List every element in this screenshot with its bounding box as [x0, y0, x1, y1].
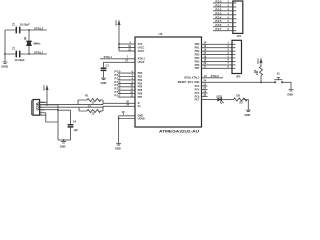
connector JP2	[232, 40, 242, 78]
wire switch to gnd	[283, 82, 291, 89]
wire usb vbus	[40, 101, 47, 103]
svg-text:GND: GND	[101, 81, 107, 85]
svg-text:1: 1	[127, 56, 129, 59]
wire PB7	[202, 66, 233, 69]
node XTAL2 stub at IC	[202, 74, 224, 78]
svg-text:C1: C1	[106, 64, 110, 68]
node PD4 label	[115, 84, 136, 87]
capacitor C1	[101, 64, 110, 78]
node PD0 jp wire	[213, 0, 233, 3]
wire PB3	[202, 52, 233, 55]
ground GND led	[245, 110, 251, 117]
svg-text:PB7: PB7	[195, 67, 200, 70]
node PD4 jp wire	[213, 16, 233, 19]
svg-text:UGND: UGND	[138, 117, 145, 120]
svg-text:PC7: PC7	[195, 98, 200, 101]
supply VCC reset	[256, 58, 263, 67]
capacitor C4	[68, 120, 79, 140]
wire UVCC pin	[119, 45, 135, 48]
svg-text:U1: U1	[159, 32, 163, 36]
wire PB0	[202, 42, 233, 45]
wire left vertical crystal bus	[4, 30, 6, 62]
node XTAL1 label	[34, 50, 44, 54]
wire usb gnd drop	[57, 105, 59, 140]
wire PC5 stub	[202, 90, 208, 93]
wire usb gnd row	[40, 109, 58, 111]
svg-text:PD5: PD5	[216, 20, 222, 23]
svg-text:C3: C3	[12, 22, 16, 26]
wire PC2 stub	[202, 83, 208, 86]
ground GND ucap	[101, 78, 107, 85]
supply VCC at IC	[114, 20, 120, 52]
wire r3 to gnd	[244, 100, 249, 111]
node PD3 jp wire	[213, 12, 233, 15]
svg-text:LED1: LED1	[216, 95, 223, 98]
svg-text:PD4: PD4	[216, 16, 222, 19]
node PD6 label	[115, 91, 136, 94]
node PD5 jp wire	[213, 20, 233, 23]
node PD5 label	[115, 88, 136, 91]
wire PB4	[202, 55, 233, 58]
svg-text:GND: GND	[115, 146, 121, 150]
resistor R3 220	[234, 95, 248, 105]
junction vcc pins	[118, 43, 120, 48]
junction crystal top	[28, 29, 30, 31]
usb connector X1	[31, 100, 39, 116]
wire D+	[40, 106, 135, 111]
svg-text:VCC: VCC	[114, 20, 118, 26]
svg-text:PD7: PD7	[138, 96, 143, 99]
svg-text:R1: R1	[85, 95, 89, 98]
svg-text:GND: GND	[287, 92, 293, 96]
wire VCC pin	[119, 41, 135, 44]
node PD7 jp wire	[213, 28, 233, 31]
wire c4 branch top	[58, 110, 71, 124]
pin number 29	[126, 104, 129, 107]
svg-text:22: 22	[92, 112, 95, 115]
node XTAL1 stub at IC	[100, 55, 135, 59]
svg-text:22: 22	[92, 101, 95, 104]
node PD6 jp wire	[213, 24, 233, 27]
junction left bus bottom	[4, 53, 6, 55]
wire gnd bar bottom	[58, 139, 71, 141]
svg-text:PD6: PD6	[216, 24, 222, 27]
svg-text:(PC0)_XTAL2: (PC0)_XTAL2	[184, 77, 200, 80]
crystal Q1 8MHz	[23, 30, 41, 54]
pin number 30	[126, 101, 129, 104]
junction reset pullup	[260, 81, 262, 83]
junction vcc tap	[46, 104, 48, 106]
wire PB6	[202, 62, 233, 65]
U1 right pin names	[178, 43, 200, 101]
resistor R4 10K	[254, 67, 263, 83]
junction gnd drop top	[57, 109, 59, 111]
svg-text:PD1: PD1	[216, 4, 222, 7]
capacitor C3	[5, 22, 47, 33]
svg-text:220: 220	[236, 95, 241, 98]
wire AVCC pin	[119, 48, 135, 51]
wire PB1	[202, 45, 233, 48]
svg-text:GND: GND	[1, 65, 9, 69]
svg-text:XTAL2: XTAL2	[211, 74, 220, 78]
svg-text:JP2: JP2	[236, 76, 241, 79]
wire usb shield loop	[40, 113, 58, 122]
svg-text:GND: GND	[245, 113, 251, 117]
connector JP1	[233, 1, 243, 38]
svg-text:XTAL2: XTAL2	[34, 26, 44, 30]
wire PB5	[202, 59, 233, 62]
node PD1 jp wire	[213, 4, 233, 7]
svg-text:12-22pF: 12-22pF	[15, 58, 26, 62]
svg-text:S1: S1	[277, 72, 281, 75]
svg-text:10-22pF: 10-22pF	[20, 23, 31, 27]
svg-text:R4: R4	[254, 69, 257, 73]
U1 left pin names	[138, 43, 146, 121]
svg-text:D+: D+	[138, 105, 142, 108]
svg-text:VCC: VCC	[42, 85, 46, 91]
svg-text:PD3: PD3	[216, 12, 222, 15]
svg-text:8MHz: 8MHz	[34, 42, 42, 46]
wire UCAP	[104, 60, 136, 68]
wire GND pin	[119, 113, 135, 116]
ground GND crystal	[1, 62, 9, 69]
wire led to r3	[221, 99, 233, 101]
wire usb vcc row	[40, 104, 58, 106]
svg-text:PD0: PD0	[216, 0, 222, 3]
node PD2 label	[115, 77, 136, 80]
svg-text:JP1: JP1	[237, 35, 242, 38]
svg-text:XTAL1: XTAL1	[104, 55, 113, 59]
svg-text:C4: C4	[73, 120, 77, 124]
capacitor C2	[5, 46, 47, 62]
svg-text:UCAP: UCAP	[138, 61, 145, 64]
wire PB2	[202, 49, 233, 52]
svg-text:/RESET_(PC1_DW): /RESET_(PC1_DW)	[178, 81, 200, 84]
junction crystal bottom	[28, 53, 30, 55]
svg-text:PD7: PD7	[216, 28, 222, 31]
node PD0 label	[115, 71, 136, 74]
svg-text:XTAL1: XTAL1	[34, 50, 44, 54]
resistor R1	[85, 95, 100, 105]
ground GND switch	[287, 90, 293, 97]
led LED1	[202, 95, 224, 103]
svg-text:GND: GND	[60, 145, 66, 149]
wire UGND pin	[119, 111, 135, 119]
svg-text:R3: R3	[240, 102, 244, 105]
wire RESET net	[202, 80, 275, 83]
wire PC6 stub	[202, 94, 208, 97]
wire gnd drop IC	[118, 116, 120, 144]
svg-text:AVCC: AVCC	[138, 50, 145, 53]
wire PC4 stub	[202, 87, 208, 90]
usb pin labels	[40, 102, 46, 117]
wire D-	[40, 100, 135, 105]
node PD7 label	[115, 95, 136, 98]
svg-text:1µF: 1µF	[73, 128, 78, 132]
node PD1 label	[115, 74, 136, 77]
node PD2 jp wire	[213, 8, 233, 11]
ground GND usb	[60, 142, 66, 149]
svg-text:USB: USB	[35, 102, 39, 110]
svg-text:PD2: PD2	[216, 8, 222, 11]
junction gnd tee	[63, 139, 65, 141]
node PD3 label	[115, 81, 136, 84]
svg-text:ATMEGA32U2-AU: ATMEGA32U2-AU	[159, 129, 199, 133]
supply VCC near USB	[42, 85, 48, 105]
op-amp U1 ATMEGA32U2 box	[135, 32, 202, 133]
ground GND ic	[115, 144, 121, 151]
resistor R2	[87, 105, 101, 115]
svg-text:Q1: Q1	[23, 36, 27, 40]
svg-text:28: 28	[122, 111, 125, 114]
node XTAL2 label	[34, 26, 44, 30]
svg-text:VCC: VCC	[256, 58, 260, 64]
switch S1	[274, 72, 282, 83]
svg-text:C2: C2	[12, 46, 16, 50]
svg-text:PD7: PD7	[115, 95, 121, 98]
